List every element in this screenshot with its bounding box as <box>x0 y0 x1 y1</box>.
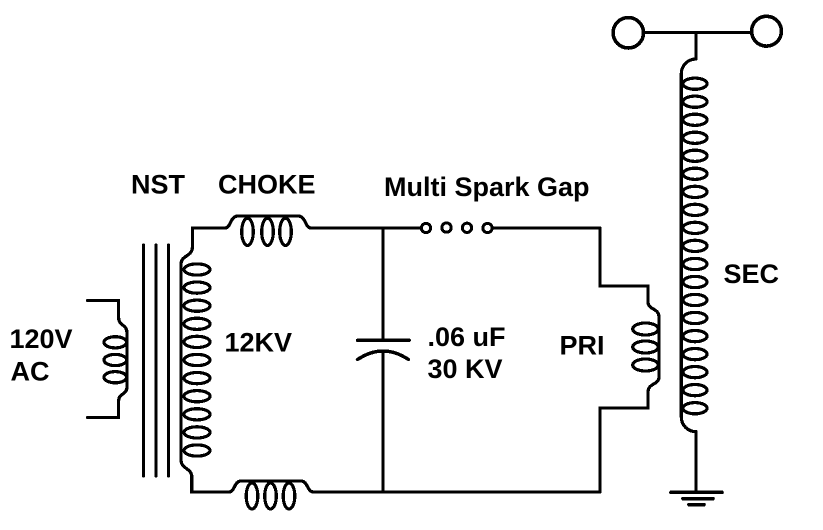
svg-text:PRI: PRI <box>560 330 605 360</box>
120V AC primary top stub <box>88 301 119 318</box>
PRI spine <box>657 317 660 377</box>
top wire choke to spark gap <box>311 226 420 229</box>
svg-text:120V: 120V <box>10 324 73 354</box>
bottom wire choke2 to PRI <box>314 490 601 493</box>
NST secondary exit <box>181 460 210 492</box>
PRI bottom return to bottom wire <box>600 392 648 492</box>
bottom wire NST to choke2 <box>210 490 229 493</box>
toroid bar wire <box>645 31 750 34</box>
NST secondary entry (top-left corner of loop) <box>181 228 210 264</box>
svg-text:.06 uF: .06 uF <box>428 322 506 352</box>
PRI entry curve <box>648 302 659 317</box>
ground <box>671 492 722 504</box>
top wire spark gap to PRI branch <box>493 226 600 229</box>
svg-text:CHOKE: CHOKE <box>218 170 316 200</box>
toroid left sphere <box>613 18 643 48</box>
svg-text:NST: NST <box>131 170 186 200</box>
120V AC primary exit curve <box>119 387 127 401</box>
NST core <box>144 245 169 476</box>
svg-text:SEC: SEC <box>724 259 780 289</box>
secondary coil turns <box>683 78 707 414</box>
choke bottom turns <box>246 483 295 509</box>
svg-text:30 KV: 30 KV <box>428 354 503 384</box>
svg-text:AC: AC <box>11 357 50 387</box>
120V AC primary spine <box>125 333 128 387</box>
wire secondary to ground <box>694 432 697 491</box>
capacitor C top plate <box>358 339 410 342</box>
120V AC primary entry curve <box>119 318 127 333</box>
spark gap balls <box>421 223 492 233</box>
PRI turns <box>633 323 659 371</box>
choke top turns <box>242 218 292 245</box>
choke top body <box>225 216 311 228</box>
120V AC primary turns <box>104 337 127 383</box>
PRI exit curve <box>648 377 659 392</box>
120V AC primary bottom stub <box>88 401 119 418</box>
svg-text:Multi Spark Gap: Multi Spark Gap <box>384 172 590 202</box>
secondary coil spine <box>680 74 683 417</box>
toroid right sphere <box>752 16 782 46</box>
secondary coil SEC entry curve <box>681 59 696 74</box>
capacitor top lead <box>381 228 384 339</box>
PRI branch right vertical from top wire <box>600 228 648 302</box>
wire toroid to secondary <box>694 33 697 60</box>
top wire NST to choke <box>210 226 225 229</box>
capacitor C bottom curved plate <box>358 351 409 360</box>
choke bottom body <box>229 481 314 492</box>
secondary coil exit curve <box>681 417 696 432</box>
NST secondary spine <box>179 264 182 460</box>
capacitor bottom lead <box>381 353 384 492</box>
NST secondary turns <box>184 264 210 456</box>
svg-text:12KV: 12KV <box>225 328 293 358</box>
